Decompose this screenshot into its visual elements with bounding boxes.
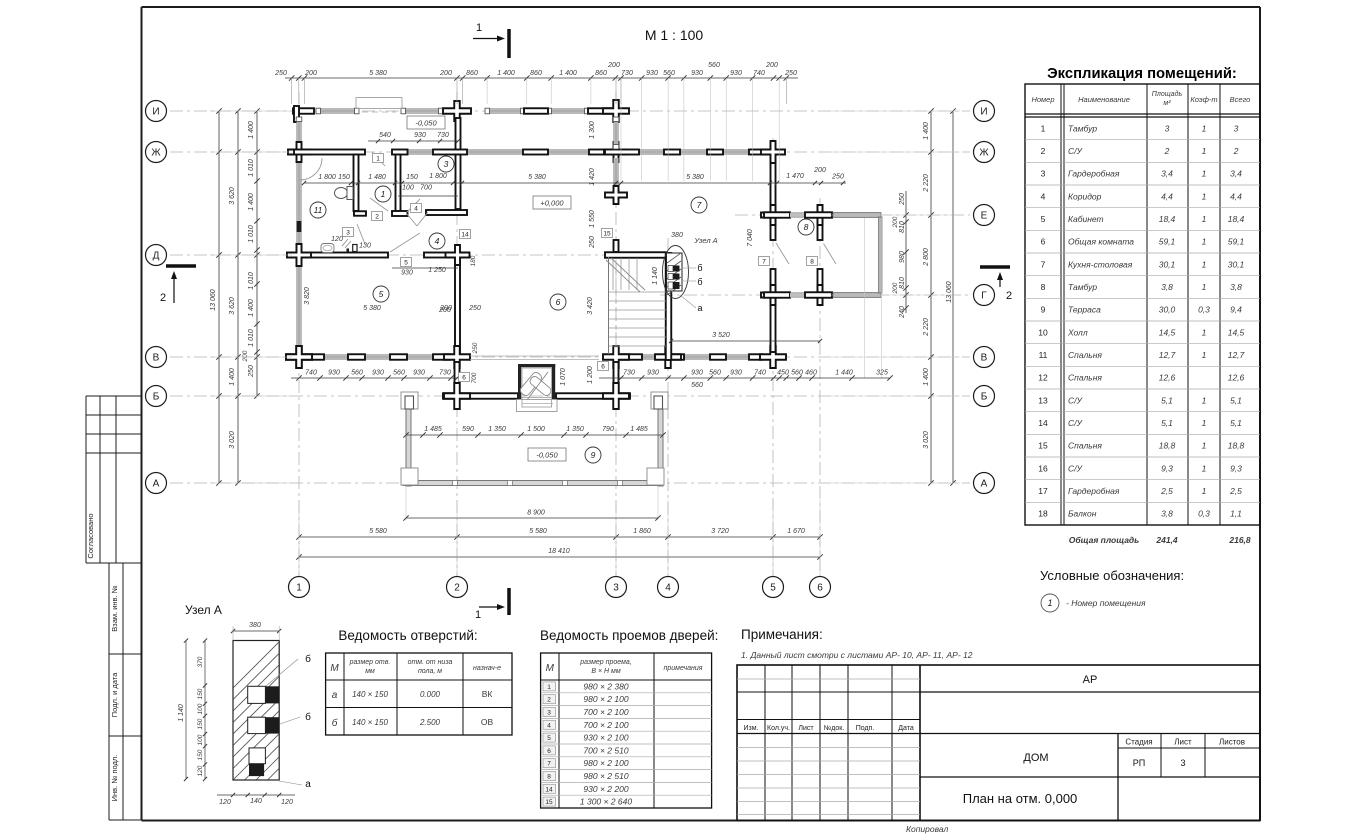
- svg-text:1: 1: [547, 684, 551, 691]
- svg-text:5: 5: [404, 259, 408, 266]
- svg-text:980 × 2 100: 980 × 2 100: [583, 694, 628, 704]
- svg-text:Спальня: Спальня: [1068, 350, 1102, 360]
- svg-text:810: 810: [899, 221, 906, 233]
- svg-text:8: 8: [547, 774, 551, 781]
- svg-text:1: 1: [1202, 418, 1207, 428]
- svg-text:700 × 2 100: 700 × 2 100: [583, 720, 628, 730]
- svg-text:200: 200: [304, 70, 317, 77]
- svg-text:5 380: 5 380: [369, 70, 387, 77]
- svg-text:Стадия: Стадия: [1125, 738, 1152, 747]
- svg-text:730: 730: [439, 370, 451, 377]
- svg-text:140 × 150: 140 × 150: [352, 718, 388, 727]
- svg-text:250: 250: [784, 70, 797, 77]
- svg-text:1: 1: [475, 609, 481, 621]
- svg-text:ВК: ВК: [482, 689, 493, 699]
- svg-text:1 200: 1 200: [587, 366, 594, 384]
- svg-text:200: 200: [892, 216, 899, 228]
- svg-text:1 400: 1 400: [248, 121, 255, 139]
- svg-text:13: 13: [1038, 395, 1048, 405]
- svg-text:150: 150: [197, 688, 204, 699]
- svg-text:1: 1: [1202, 395, 1207, 405]
- svg-text:1 350: 1 350: [488, 426, 506, 433]
- svg-text:1,1: 1,1: [1230, 509, 1242, 519]
- svg-text:М: М: [546, 663, 555, 674]
- svg-text:930 × 2 200: 930 × 2 200: [583, 784, 628, 794]
- svg-text:700 × 2 100: 700 × 2 100: [583, 707, 628, 717]
- svg-text:мм: мм: [365, 668, 375, 675]
- svg-text:1 480: 1 480: [368, 174, 386, 181]
- svg-text:120: 120: [197, 765, 204, 776]
- svg-text:размер проема,: размер проема,: [579, 659, 631, 666]
- svg-text:30,1: 30,1: [1159, 259, 1176, 269]
- svg-text:15: 15: [603, 230, 611, 237]
- svg-text:1 485: 1 485: [630, 426, 648, 433]
- svg-text:0,3: 0,3: [1198, 305, 1210, 315]
- svg-text:2 220: 2 220: [923, 318, 930, 337]
- svg-text:120: 120: [219, 799, 231, 806]
- svg-text:В: В: [153, 353, 160, 364]
- svg-text:Лист: Лист: [798, 725, 814, 732]
- svg-text:810: 810: [899, 277, 906, 289]
- svg-text:1 300: 1 300: [589, 121, 596, 139]
- svg-text:930: 930: [730, 370, 742, 377]
- svg-text:ДОМ: ДОМ: [1023, 752, 1048, 764]
- svg-text:Коэф-т: Коэф-т: [1190, 95, 1217, 104]
- svg-text:Г: Г: [981, 291, 987, 302]
- svg-text:59,1: 59,1: [1228, 237, 1245, 247]
- svg-text:5,1: 5,1: [1230, 395, 1242, 405]
- svg-text:Узел А: Узел А: [693, 236, 717, 245]
- svg-text:5,1: 5,1: [1161, 395, 1173, 405]
- svg-text:14: 14: [1038, 418, 1048, 428]
- svg-text:17: 17: [1038, 486, 1048, 496]
- svg-text:380: 380: [671, 232, 683, 239]
- svg-text:8 900: 8 900: [527, 510, 545, 517]
- svg-text:1: 1: [1202, 327, 1207, 337]
- svg-text:240: 240: [899, 306, 906, 319]
- svg-text:3: 3: [1165, 123, 1170, 133]
- svg-text:Тамбур: Тамбур: [1068, 123, 1097, 133]
- svg-text:460: 460: [805, 370, 817, 377]
- svg-text:12,7: 12,7: [1228, 350, 1245, 360]
- svg-text:930: 930: [401, 270, 413, 277]
- svg-text:3: 3: [346, 229, 350, 236]
- svg-text:В × Н мм: В × Н мм: [591, 668, 620, 675]
- svg-text:1: 1: [1202, 259, 1207, 269]
- svg-text:3,4: 3,4: [1161, 169, 1173, 179]
- svg-text:2: 2: [1164, 146, 1170, 156]
- svg-text:1 070: 1 070: [560, 368, 567, 386]
- svg-text:250: 250: [468, 305, 481, 312]
- svg-text:1: 1: [1202, 123, 1207, 133]
- svg-text:Копировал: Копировал: [906, 824, 948, 834]
- svg-text:-0,050: -0,050: [415, 119, 437, 128]
- svg-text:6: 6: [556, 297, 561, 307]
- svg-text:м²: м²: [1163, 100, 1171, 107]
- svg-text:Кол.уч.: Кол.уч.: [767, 725, 790, 732]
- svg-text:3 820: 3 820: [304, 287, 311, 305]
- svg-text:15: 15: [545, 799, 553, 806]
- svg-text:Д: Д: [153, 251, 160, 262]
- svg-text:150: 150: [338, 174, 350, 181]
- svg-text:100: 100: [197, 703, 204, 714]
- svg-text:9: 9: [591, 450, 596, 460]
- svg-text:130: 130: [359, 243, 371, 250]
- svg-text:18 410: 18 410: [548, 548, 570, 555]
- svg-text:930: 930: [372, 370, 384, 377]
- svg-text:12,6: 12,6: [1228, 373, 1245, 383]
- svg-text:560: 560: [351, 370, 363, 377]
- svg-text:Ведомость проемов дверей:: Ведомость проемов дверей:: [540, 628, 718, 643]
- svg-text:5,1: 5,1: [1230, 418, 1242, 428]
- svg-text:4: 4: [547, 722, 551, 729]
- svg-text:5: 5: [770, 583, 776, 594]
- svg-text:2 800: 2 800: [923, 248, 930, 267]
- svg-text:1: 1: [1202, 282, 1207, 292]
- svg-text:14: 14: [461, 231, 469, 238]
- svg-text:216,8: 216,8: [1228, 535, 1251, 545]
- svg-text:4: 4: [1041, 191, 1046, 201]
- svg-text:Экспликация помещений:: Экспликация помещений:: [1047, 66, 1237, 82]
- svg-text:5 380: 5 380: [363, 305, 381, 312]
- svg-text:1: 1: [1202, 237, 1207, 247]
- svg-text:1: 1: [1202, 350, 1207, 360]
- svg-text:3: 3: [1180, 758, 1185, 768]
- svg-text:180: 180: [470, 255, 477, 266]
- svg-text:9,3: 9,3: [1161, 463, 1173, 473]
- svg-text:назнач-е: назнач-е: [473, 665, 501, 672]
- svg-text:980 × 2 100: 980 × 2 100: [583, 758, 628, 768]
- svg-text:2: 2: [1006, 290, 1012, 302]
- svg-text:3: 3: [547, 710, 551, 717]
- svg-text:7: 7: [547, 761, 551, 768]
- svg-text:Номер: Номер: [1031, 95, 1054, 104]
- svg-text:Изм.: Изм.: [744, 725, 759, 732]
- svg-text:2.500: 2.500: [419, 718, 441, 727]
- svg-text:1 670: 1 670: [787, 528, 805, 535]
- svg-text:С/У: С/У: [1068, 395, 1084, 405]
- svg-text:ОВ: ОВ: [481, 717, 494, 727]
- svg-text:250: 250: [899, 193, 906, 206]
- svg-text:9,3: 9,3: [1230, 463, 1242, 473]
- svg-text:а: а: [332, 690, 338, 701]
- svg-text:2,5: 2,5: [1229, 486, 1242, 496]
- svg-text:4: 4: [435, 236, 440, 246]
- svg-text:1 860: 1 860: [633, 528, 651, 535]
- svg-text:980 × 2 380: 980 × 2 380: [583, 681, 628, 691]
- svg-text:30,0: 30,0: [1159, 305, 1176, 315]
- svg-text:Е: Е: [981, 211, 988, 222]
- svg-text:30,1: 30,1: [1228, 259, 1245, 269]
- svg-text:пола, м: пола, м: [418, 668, 442, 675]
- svg-text:1 800: 1 800: [318, 174, 336, 181]
- svg-text:150: 150: [197, 749, 204, 760]
- svg-text:отм. от низа: отм. от низа: [408, 659, 453, 666]
- svg-text:1: 1: [1047, 598, 1052, 608]
- svg-text:Подп.: Подп.: [856, 725, 875, 732]
- svg-text:200: 200: [439, 305, 452, 312]
- svg-text:730: 730: [623, 370, 635, 377]
- svg-text:15: 15: [1038, 441, 1048, 451]
- svg-text:7 040: 7 040: [747, 229, 754, 247]
- svg-text:1 140: 1 140: [652, 267, 659, 285]
- svg-text:540: 540: [379, 132, 391, 139]
- svg-text:1: 1: [1202, 463, 1207, 473]
- svg-text:Гардеробная: Гардеробная: [1068, 486, 1120, 496]
- svg-text:1 400: 1 400: [559, 70, 577, 77]
- svg-text:560: 560: [663, 70, 675, 77]
- svg-text:Кабинет: Кабинет: [1068, 214, 1104, 224]
- svg-text:Б: Б: [981, 392, 988, 403]
- svg-text:700: 700: [420, 185, 432, 192]
- svg-text:1 440: 1 440: [835, 370, 853, 377]
- svg-text:А: А: [981, 479, 988, 490]
- svg-text:18: 18: [1038, 509, 1048, 519]
- svg-text:14,5: 14,5: [1228, 327, 1245, 337]
- svg-text:5: 5: [1041, 214, 1046, 224]
- svg-text:5,1: 5,1: [1161, 418, 1173, 428]
- svg-text:Всего: Всего: [1230, 95, 1251, 104]
- svg-text:930: 930: [647, 370, 659, 377]
- svg-text:140 × 150: 140 × 150: [352, 690, 388, 699]
- svg-text:16: 16: [1038, 463, 1048, 473]
- svg-text:100: 100: [197, 734, 204, 745]
- svg-text:12,6: 12,6: [1159, 373, 1176, 383]
- svg-text:730: 730: [437, 132, 449, 139]
- svg-text:С/У: С/У: [1068, 418, 1084, 428]
- svg-text:План на отм. 0,000: План на отм. 0,000: [963, 791, 1078, 806]
- svg-text:250: 250: [831, 174, 844, 181]
- svg-text:200: 200: [813, 167, 826, 174]
- svg-text:2: 2: [1041, 146, 1046, 156]
- svg-text:1 010: 1 010: [248, 272, 255, 290]
- svg-text:3,4: 3,4: [1230, 169, 1242, 179]
- svg-text:Наименование: Наименование: [1078, 95, 1130, 104]
- svg-text:1: 1: [1202, 191, 1207, 201]
- svg-text:5 580: 5 580: [529, 528, 547, 535]
- svg-text:Тамбур: Тамбур: [1068, 282, 1097, 292]
- svg-text:930: 930: [691, 70, 703, 77]
- svg-text:1. Данный лист смотри с листам: 1. Данный лист смотри с листами АР- 10, …: [741, 650, 973, 660]
- svg-text:3,8: 3,8: [1230, 282, 1242, 292]
- svg-text:М 1 : 100: М 1 : 100: [645, 27, 704, 43]
- svg-text:200: 200: [607, 62, 620, 69]
- svg-text:+0,000: +0,000: [540, 199, 564, 208]
- svg-text:4: 4: [414, 205, 418, 212]
- svg-text:12,7: 12,7: [1159, 350, 1176, 360]
- svg-text:б: б: [305, 653, 311, 665]
- svg-text:250: 250: [589, 236, 596, 249]
- svg-text:Взам. инв. №: Взам. инв. №: [110, 585, 119, 631]
- svg-text:Общая комната: Общая комната: [1068, 237, 1134, 247]
- svg-text:Листов: Листов: [1219, 738, 1245, 747]
- svg-text:5: 5: [547, 735, 551, 742]
- svg-text:325: 325: [876, 370, 888, 377]
- svg-text:1: 1: [1202, 146, 1207, 156]
- svg-text:1 010: 1 010: [248, 159, 255, 177]
- svg-text:И: И: [152, 107, 159, 118]
- svg-text:200: 200: [439, 70, 452, 77]
- svg-text:6: 6: [1041, 237, 1046, 247]
- svg-text:0.000: 0.000: [420, 690, 441, 699]
- svg-text:размер отв.: размер отв.: [349, 659, 391, 666]
- svg-text:1 400: 1 400: [923, 122, 930, 140]
- svg-text:18,4: 18,4: [1159, 214, 1176, 224]
- svg-text:3: 3: [444, 159, 449, 169]
- svg-text:1 400: 1 400: [229, 368, 236, 386]
- svg-text:Дата: Дата: [898, 725, 914, 732]
- svg-text:120: 120: [281, 799, 293, 806]
- svg-text:790: 790: [602, 426, 614, 433]
- svg-text:1 470: 1 470: [786, 173, 804, 180]
- svg-text:3 620: 3 620: [229, 187, 236, 205]
- svg-text:3: 3: [1041, 169, 1046, 179]
- svg-text:Согласовано: Согласовано: [86, 513, 95, 558]
- svg-text:250: 250: [274, 70, 287, 77]
- svg-text:Балкон: Балкон: [1068, 509, 1097, 519]
- svg-text:930: 930: [413, 370, 425, 377]
- svg-text:1 400: 1 400: [248, 193, 255, 211]
- svg-text:1 485: 1 485: [424, 426, 442, 433]
- svg-text:1 350: 1 350: [566, 426, 584, 433]
- svg-text:13 060: 13 060: [946, 281, 953, 303]
- svg-text:3 520: 3 520: [712, 332, 730, 339]
- svg-text:930: 930: [646, 70, 658, 77]
- svg-text:7: 7: [1041, 259, 1046, 269]
- svg-text:380: 380: [249, 622, 261, 629]
- svg-text:Спальня: Спальня: [1068, 441, 1102, 451]
- svg-text:8: 8: [810, 258, 814, 265]
- svg-text:1 010: 1 010: [248, 329, 255, 347]
- svg-text:Кухня-столовая: Кухня-столовая: [1068, 259, 1133, 269]
- svg-text:370: 370: [197, 656, 204, 667]
- svg-text:700: 700: [471, 372, 478, 383]
- svg-text:14,5: 14,5: [1159, 327, 1176, 337]
- svg-text:2 220: 2 220: [923, 174, 930, 193]
- svg-text:1 140: 1 140: [178, 704, 185, 722]
- svg-text:8: 8: [804, 222, 809, 232]
- svg-text:1: 1: [381, 189, 386, 199]
- svg-text:11: 11: [314, 205, 323, 215]
- svg-text:5 380: 5 380: [528, 174, 546, 181]
- svg-text:59,1: 59,1: [1159, 237, 1176, 247]
- svg-text:б: б: [305, 711, 311, 723]
- svg-text:Лист: Лист: [1174, 738, 1192, 747]
- svg-text:560: 560: [691, 382, 703, 389]
- svg-text:980 × 2 510: 980 × 2 510: [583, 771, 628, 781]
- svg-text:740: 740: [305, 370, 317, 377]
- svg-text:6: 6: [462, 374, 466, 381]
- svg-text:9: 9: [1041, 305, 1046, 315]
- svg-text:б: б: [697, 263, 702, 273]
- svg-text:740: 740: [754, 370, 766, 377]
- svg-text:С/У: С/У: [1068, 146, 1084, 156]
- svg-text:1: 1: [1202, 169, 1207, 179]
- svg-text:примечания: примечания: [664, 665, 703, 672]
- svg-text:140: 140: [250, 798, 262, 805]
- svg-text:3 020: 3 020: [923, 431, 930, 449]
- svg-text:4,4: 4,4: [1230, 191, 1242, 201]
- svg-text:1: 1: [476, 22, 482, 34]
- svg-text:450: 450: [777, 370, 789, 377]
- svg-text:5 380: 5 380: [686, 174, 704, 181]
- svg-text:1 400: 1 400: [923, 368, 930, 386]
- svg-text:12: 12: [1038, 373, 1048, 383]
- svg-text:И: И: [980, 107, 987, 118]
- svg-text:740: 740: [753, 70, 765, 77]
- svg-text:1: 1: [376, 155, 380, 162]
- svg-text:1 250: 1 250: [428, 267, 446, 274]
- svg-text:Гардеробная: Гардеробная: [1068, 169, 1120, 179]
- svg-text:13 060: 13 060: [210, 289, 217, 311]
- svg-text:1 500: 1 500: [527, 426, 545, 433]
- svg-text:Подл. и дата: Подл. и дата: [110, 672, 119, 717]
- svg-text:100: 100: [402, 185, 414, 192]
- svg-text:Примечания:: Примечания:: [741, 627, 823, 642]
- svg-text:1 800: 1 800: [429, 173, 447, 180]
- svg-text:150: 150: [406, 174, 418, 181]
- svg-text:Терраса: Терраса: [1068, 305, 1101, 315]
- svg-text:150: 150: [197, 718, 204, 729]
- svg-text:3: 3: [1234, 123, 1239, 133]
- svg-text:3: 3: [613, 583, 619, 594]
- svg-text:6: 6: [601, 363, 605, 370]
- svg-text:860: 860: [530, 70, 542, 77]
- svg-text:АР: АР: [1083, 674, 1098, 686]
- svg-text:3 620: 3 620: [229, 297, 236, 315]
- svg-text:860: 860: [466, 70, 478, 77]
- svg-text:2: 2: [375, 213, 379, 220]
- svg-text:560: 560: [708, 62, 720, 69]
- svg-text:1 420: 1 420: [589, 168, 596, 186]
- svg-text:560: 560: [393, 370, 405, 377]
- svg-text:120: 120: [331, 236, 343, 243]
- svg-text:1: 1: [1041, 123, 1046, 133]
- svg-text:930: 930: [730, 70, 742, 77]
- svg-text:0,3: 0,3: [1198, 509, 1210, 519]
- svg-text:Ж: Ж: [979, 148, 989, 159]
- svg-text:2: 2: [547, 697, 551, 704]
- svg-text:590: 590: [462, 426, 474, 433]
- svg-text:3 720: 3 720: [711, 528, 729, 535]
- svg-text:200: 200: [892, 282, 899, 294]
- svg-text:Площадь: Площадь: [1152, 90, 1183, 98]
- svg-text:5: 5: [379, 289, 384, 299]
- svg-text:2: 2: [454, 583, 460, 594]
- svg-text:- Номер помещения: - Номер помещения: [1066, 598, 1146, 608]
- svg-text:а: а: [697, 303, 702, 313]
- svg-text:1: 1: [1202, 486, 1207, 496]
- svg-text:6: 6: [547, 748, 551, 755]
- svg-text:Коридор: Коридор: [1068, 191, 1102, 201]
- svg-text:б: б: [697, 277, 702, 287]
- svg-text:1 400: 1 400: [497, 70, 515, 77]
- svg-text:18,4: 18,4: [1228, 214, 1245, 224]
- svg-text:200: 200: [765, 62, 778, 69]
- svg-text:930 × 2 100: 930 × 2 100: [583, 733, 628, 743]
- svg-text:2: 2: [1233, 146, 1239, 156]
- svg-text:5 580: 5 580: [369, 528, 387, 535]
- svg-text:10: 10: [1038, 327, 1048, 337]
- svg-text:4,4: 4,4: [1161, 191, 1173, 201]
- svg-text:7: 7: [697, 200, 702, 210]
- svg-text:Общая площадь: Общая площадь: [1069, 535, 1139, 545]
- svg-text:РП: РП: [1133, 758, 1145, 768]
- svg-text:250: 250: [248, 365, 255, 378]
- svg-text:1 400: 1 400: [248, 299, 255, 317]
- svg-text:Инв. № подл.: Инв. № подл.: [110, 755, 119, 802]
- svg-text:2: 2: [160, 292, 166, 304]
